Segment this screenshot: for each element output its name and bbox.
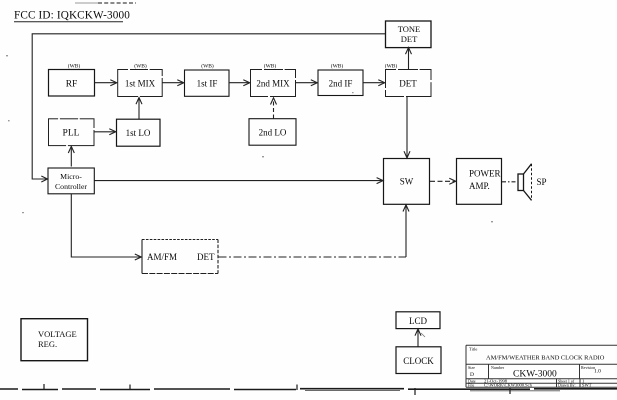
svg-text:1.0: 1.0 — [594, 369, 601, 375]
title block — [466, 345, 617, 387]
block LCD — [396, 312, 440, 329]
wire TONE DET output to Micro-Controller (top/left feedback) — [32, 34, 385, 182]
svg-text:(WB): (WB) — [264, 62, 277, 69]
block 1st IF — [185, 70, 230, 96]
svg-text:Micro-: Micro- — [60, 172, 82, 181]
wire POWER AMP to speaker (dash-dot) — [502, 181, 518, 183]
svg-text:VOLTAGE: VOLTAGE — [38, 329, 77, 339]
svg-text:FCC ID: IQKCKW-3000: FCC ID: IQKCKW-3000 — [14, 9, 130, 21]
svg-text:2nd LO: 2nd LO — [259, 128, 287, 138]
svg-text:CLOCK: CLOCK — [403, 356, 434, 366]
wire PLL to 1st LO — [95, 129, 116, 135]
speaker SP — [518, 164, 532, 201]
svg-text:TONE: TONE — [398, 24, 421, 34]
svg-text:(WB): (WB) — [68, 62, 81, 69]
svg-text:RF: RF — [66, 80, 78, 90]
block 2nd LO — [249, 119, 296, 146]
svg-text:SW: SW — [400, 177, 414, 187]
wire 2nd MIX to 2nd IF — [296, 80, 318, 86]
svg-text:PLL: PLL — [63, 129, 80, 139]
svg-text:AM/FM: AM/FM — [147, 252, 177, 262]
wire 2nd IF to DET — [363, 80, 385, 86]
wire Micro-Controller to AM/FM DET — [71, 194, 141, 260]
svg-text:DET: DET — [197, 252, 215, 262]
block 1st LO — [117, 119, 161, 146]
svg-text:(WB): (WB) — [331, 62, 344, 69]
block 2nd MIX — [251, 69, 297, 97]
svg-text:2nd IF: 2nd IF — [329, 79, 353, 89]
svg-text:Title: Title — [469, 347, 477, 352]
svg-text:D: D — [470, 372, 474, 378]
wire Micro-Controller to PLL — [68, 146, 74, 166]
block POWER AMP — [457, 159, 502, 205]
svg-text:1st LO: 1st LO — [126, 128, 151, 138]
wire AM/FM DET to SW (dash-dot then up) — [219, 205, 410, 257]
sheet border ticks — [44, 384, 510, 395]
svg-text:SWT: SWT — [582, 383, 592, 388]
svg-text:Controller: Controller — [55, 182, 87, 191]
block CLOCK — [396, 347, 441, 374]
block 2nd IF — [318, 70, 363, 96]
wire 1st MIX to 1st IF — [162, 80, 184, 86]
block SW — [384, 159, 430, 205]
svg-text:AMP.: AMP. — [469, 181, 490, 191]
svg-text:SP: SP — [537, 177, 547, 187]
sheet bottom border (ragged scanned line) — [0, 389, 617, 391]
wire DET to TONE DET — [406, 48, 412, 70]
wire 2nd LO to 2nd MIX (dashed) — [271, 98, 277, 119]
block VOLTAGE REG — [21, 319, 88, 361]
svg-text:Size: Size — [468, 365, 475, 370]
wire CLOCK to LCD — [415, 329, 425, 347]
scan speckles — [6, 55, 493, 222]
block 1st MIX — [118, 69, 163, 97]
svg-text:REG.: REG. — [38, 339, 57, 349]
svg-text:1st IF: 1st IF — [197, 79, 218, 89]
svg-text:LCD: LCD — [409, 316, 428, 326]
wire RF to 1st MIX — [95, 80, 117, 86]
scan artifact dashes top — [75, 2, 136, 4]
block RF — [49, 70, 95, 97]
svg-text:DET: DET — [399, 79, 417, 89]
block TONE DET — [386, 21, 432, 48]
svg-text:1st MIX: 1st MIX — [125, 79, 156, 89]
title text FCC ID — [14, 9, 130, 22]
svg-text:(WB): (WB) — [134, 62, 147, 69]
title block texts — [468, 347, 605, 388]
block Micro-Controller — [48, 168, 94, 194]
svg-text:AM/FM/WEATHER BAND CLOCK RADIO: AM/FM/WEATHER BAND CLOCK RADIO — [486, 355, 605, 362]
svg-text:(WB): (WB) — [201, 62, 214, 69]
wire DET to SW — [404, 97, 410, 158]
wire 1st IF to 2nd MIX — [229, 80, 250, 86]
svg-text:2nd MIX: 2nd MIX — [256, 79, 290, 89]
svg-text:Number: Number — [491, 365, 505, 370]
svg-text:Drawn By:: Drawn By: — [558, 383, 576, 388]
wire SW to POWER AMP (dashed) — [430, 178, 456, 184]
svg-text:POWER: POWER — [469, 169, 501, 179]
svg-text:C:\WORK\CKW3000.Sch: C:\WORK\CKW3000.Sch — [484, 383, 533, 388]
block DET — [385, 69, 432, 97]
wire 1st LO to 1st MIX — [136, 98, 142, 120]
svg-text:File: File — [468, 383, 474, 388]
svg-text:(WB): (WB) — [385, 62, 398, 69]
block AM/FM DET — [142, 240, 218, 274]
svg-text:CKW-3000: CKW-3000 — [513, 370, 557, 380]
block PLL — [49, 118, 95, 146]
wire Micro-Controller to SW — [95, 178, 384, 184]
svg-text:DET: DET — [401, 34, 418, 44]
